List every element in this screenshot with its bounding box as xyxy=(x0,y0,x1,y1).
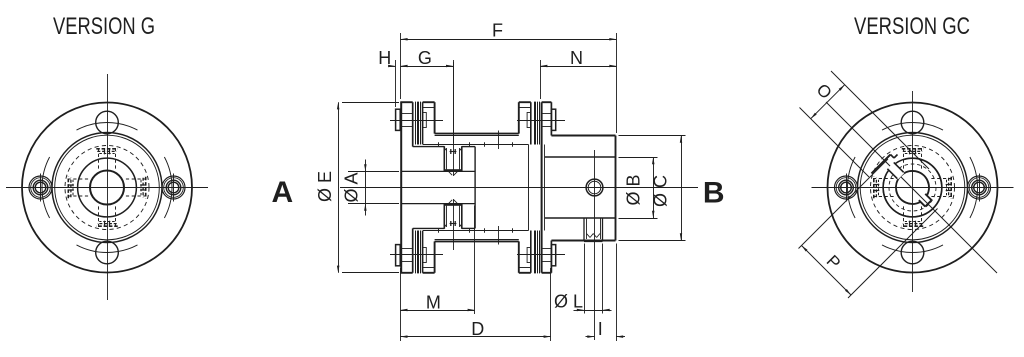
right hub threaded pocket xyxy=(583,218,585,241)
left hub flange disc xyxy=(400,102,402,273)
svg-text:VERSION G: VERSION G xyxy=(53,13,155,40)
laminae pack left xyxy=(415,102,417,145)
sleeve bore face right xyxy=(528,145,530,231)
sleeve flange left xyxy=(422,102,424,144)
right-view flange outer circle xyxy=(828,103,998,273)
dimension B xyxy=(619,157,658,159)
dimension M xyxy=(400,268,402,341)
left-view inner boss circle xyxy=(78,158,137,217)
left-view flange outer circle xyxy=(22,103,192,273)
set screw centerline bottom xyxy=(453,199,455,250)
right-view clamp circle xyxy=(883,158,942,217)
svg-text:I: I xyxy=(598,319,603,339)
right-view top bolt hole xyxy=(901,111,924,134)
left hub bore A xyxy=(401,170,475,172)
left hub set screw top xyxy=(443,146,445,171)
sleeve flange right nut xyxy=(527,113,531,128)
right-view left ear boss xyxy=(835,176,858,199)
left hub body outer xyxy=(413,146,445,148)
svg-text:B: B xyxy=(703,177,725,210)
right-view vertical centerline xyxy=(912,91,914,292)
right-view inner boss circle xyxy=(883,158,942,217)
svg-text:D: D xyxy=(471,319,484,339)
svg-text:Ø L: Ø L xyxy=(554,292,583,312)
left-view horizontal centerline xyxy=(6,187,208,189)
right-view bolt circle arcs xyxy=(882,122,943,130)
svg-text:F: F xyxy=(492,21,503,41)
right hub radial hole circle xyxy=(586,179,603,196)
sleeve inner wall top xyxy=(423,144,529,146)
dimension I xyxy=(616,244,618,342)
left-view left ear boss xyxy=(29,176,52,199)
sleeve outer top xyxy=(435,133,519,135)
svg-text:VERSION GC: VERSION GC xyxy=(854,13,970,40)
right-view keyway axis diagonal xyxy=(826,102,997,273)
left bolt head chamfer lines xyxy=(400,113,413,115)
dimension O xyxy=(831,71,929,169)
right bolt centerline bottom xyxy=(517,254,565,256)
right-view right ear boss xyxy=(968,176,991,199)
left-view bolt circle arcs xyxy=(77,122,138,130)
right-view hub outer double circle xyxy=(858,133,968,243)
left hub set screw bottom xyxy=(443,204,445,229)
svg-text:G: G xyxy=(418,48,432,68)
right-view jaw slot bottom xyxy=(902,205,923,228)
dimension N xyxy=(540,60,542,99)
left-view vertical centerline xyxy=(107,74,109,300)
left-view pitch dashed circle xyxy=(65,146,149,230)
right hub outer xyxy=(551,135,615,137)
right hub face inner line xyxy=(544,145,546,231)
dimension H and G xyxy=(395,60,397,107)
sleeve flange right xyxy=(518,102,520,133)
sleeve inner wall bottom xyxy=(423,230,529,232)
svg-text:Ø C: Ø C xyxy=(651,175,671,207)
right-view pitch dashed circle xyxy=(871,146,955,230)
radial hole centerline xyxy=(594,150,596,340)
right-view jaw slot top xyxy=(902,148,923,171)
dimension D xyxy=(550,268,552,341)
right-view bore with keyway xyxy=(896,171,929,204)
left washer top xyxy=(396,109,401,130)
left-view jaw slot top xyxy=(96,148,117,171)
right-view bushing dashed circle xyxy=(889,164,936,211)
right-view bottom bolt hole xyxy=(901,241,924,264)
section axis centerline xyxy=(340,187,698,189)
right hub flange disc xyxy=(541,102,543,273)
svg-text:Ø E: Ø E xyxy=(315,171,335,202)
set screw centerline top xyxy=(453,62,455,176)
right bolt head chamfer lines xyxy=(542,113,552,115)
laminae pack right xyxy=(534,102,536,145)
svg-text:H: H xyxy=(378,48,391,68)
left-view hub outer double circle xyxy=(52,133,162,243)
left-view bore circle xyxy=(90,171,124,205)
left bolt centerline top xyxy=(390,120,443,122)
right-view horizontal centerline xyxy=(812,187,1014,189)
svg-text:N: N xyxy=(570,48,583,68)
left-view jaw slot bottom xyxy=(96,205,117,228)
right-view jaw slot left xyxy=(873,177,896,198)
left-view bottom bolt hole xyxy=(96,241,119,264)
sleeve slot tick xyxy=(498,131,500,150)
right bolt centerline top xyxy=(517,120,565,122)
svg-text:Ø A: Ø A xyxy=(342,172,362,202)
dimension L xyxy=(584,244,586,314)
right hub bore B xyxy=(545,156,616,158)
svg-text:Ø B: Ø B xyxy=(624,174,644,205)
right washer bottom xyxy=(551,245,555,266)
sleeve outer bottom xyxy=(435,240,519,242)
left bolt centerline bottom xyxy=(390,254,443,256)
right-view clamp slot xyxy=(887,162,904,179)
left-view jaw slot left xyxy=(68,177,91,198)
dimension P xyxy=(799,159,889,249)
dimension C xyxy=(619,135,686,137)
right washer top xyxy=(551,109,555,130)
right-view jaw slot right xyxy=(930,177,953,198)
left-view right ear boss xyxy=(162,176,185,199)
left-view jaw slot right xyxy=(124,177,147,198)
right-view clamp flat edge xyxy=(872,155,891,174)
left washer bottom xyxy=(396,245,401,266)
svg-text:A: A xyxy=(271,176,293,209)
left-view top bolt hole xyxy=(96,111,119,134)
svg-text:M: M xyxy=(426,292,441,312)
sleeve flange left nut xyxy=(423,113,427,128)
dimension A xyxy=(348,171,399,173)
dimension E xyxy=(342,102,399,104)
dimension F xyxy=(400,33,402,99)
